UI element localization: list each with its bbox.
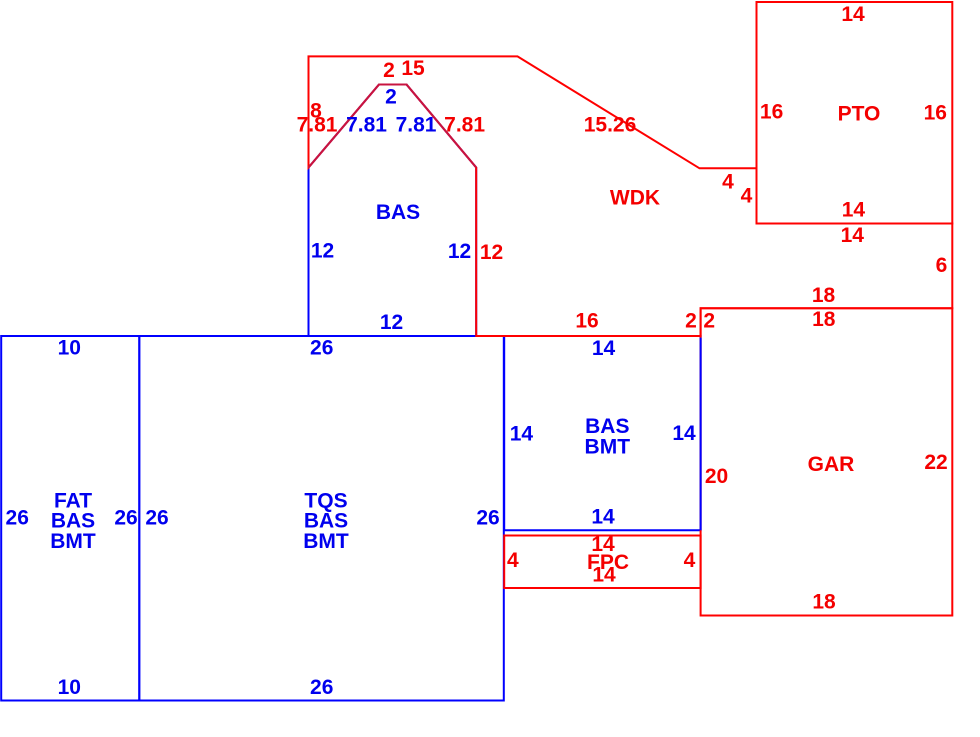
svg-text:14: 14 [841, 3, 865, 26]
svg-text:18: 18 [812, 308, 836, 331]
svg-text:BMT: BMT [585, 435, 631, 458]
svg-text:14: 14 [841, 224, 865, 247]
svg-text:26: 26 [310, 676, 333, 699]
svg-text:26: 26 [6, 506, 29, 529]
room TQS/BAS/BMT outline [139, 336, 504, 701]
svg-text:26: 26 [310, 336, 333, 359]
room PTO outline [757, 2, 953, 224]
svg-text:12: 12 [311, 239, 334, 262]
svg-text:14: 14 [591, 505, 615, 528]
svg-text:BMT: BMT [303, 530, 349, 553]
svg-text:2: 2 [385, 85, 397, 108]
overlapped roof edges of BAS/WDK [309, 85, 477, 168]
room GAR outline [701, 308, 953, 615]
room FPC outline [504, 536, 700, 589]
svg-text:4: 4 [722, 170, 734, 193]
svg-text:16: 16 [760, 101, 783, 124]
svg-text:20: 20 [705, 465, 728, 488]
svg-text:10: 10 [58, 336, 81, 359]
svg-text:2: 2 [685, 309, 697, 332]
svg-text:26: 26 [145, 506, 168, 529]
svg-text:15.26: 15.26 [584, 113, 637, 136]
svg-text:PTO: PTO [838, 102, 881, 125]
svg-text:10: 10 [58, 676, 81, 699]
svg-text:6: 6 [936, 254, 948, 277]
svg-text:7.81: 7.81 [297, 113, 338, 136]
svg-text:4: 4 [507, 549, 519, 572]
svg-text:14: 14 [592, 563, 616, 586]
svg-text:WDK: WDK [610, 186, 660, 209]
svg-text:14: 14 [592, 337, 616, 360]
svg-text:22: 22 [924, 451, 947, 474]
svg-text:12: 12 [480, 241, 503, 264]
svg-text:GAR: GAR [808, 453, 855, 476]
svg-text:26: 26 [476, 506, 499, 529]
svg-text:BAS: BAS [376, 201, 420, 224]
svg-text:14: 14 [842, 199, 866, 222]
svg-text:12: 12 [448, 240, 471, 263]
room FAT/BAS/BMT outline [1, 336, 139, 701]
svg-text:14: 14 [672, 422, 696, 445]
svg-text:2: 2 [703, 309, 715, 332]
room BAS pentagon outline [309, 85, 477, 337]
svg-text:7.81: 7.81 [346, 113, 387, 136]
svg-text:15: 15 [401, 57, 425, 80]
room WDK outline [309, 56, 953, 336]
svg-text:16: 16 [924, 101, 947, 124]
svg-text:BMT: BMT [50, 530, 96, 553]
svg-text:16: 16 [575, 309, 598, 332]
svg-text:7.81: 7.81 [396, 113, 437, 136]
room BAS/BMT outline [504, 336, 700, 530]
svg-text:18: 18 [812, 284, 836, 307]
svg-text:4: 4 [741, 184, 753, 207]
svg-text:2: 2 [383, 59, 395, 82]
svg-text:26: 26 [114, 506, 137, 529]
svg-text:12: 12 [380, 311, 403, 334]
svg-text:4: 4 [684, 549, 696, 572]
svg-text:7.81: 7.81 [444, 113, 485, 136]
wire BAS/BMT right edge over GAR left edge [700, 338, 702, 531]
svg-text:18: 18 [812, 590, 836, 613]
svg-text:14: 14 [510, 422, 534, 445]
